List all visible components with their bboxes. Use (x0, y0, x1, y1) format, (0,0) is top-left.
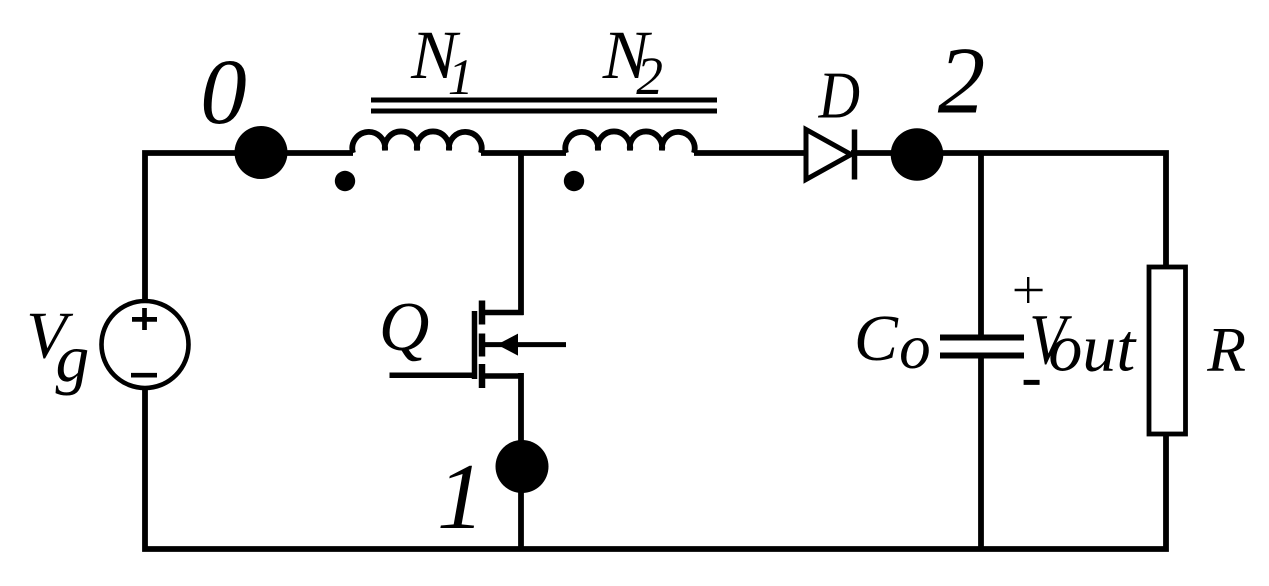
svg-text:o: o (899, 312, 931, 382)
svg-text:g: g (56, 321, 90, 396)
svg-text:1: 1 (437, 445, 484, 549)
svg-text:Q: Q (379, 289, 430, 366)
svg-text:2: 2 (636, 46, 663, 106)
svg-text:C: C (854, 302, 899, 375)
svg-text:out: out (1048, 309, 1137, 385)
svg-text:2: 2 (938, 28, 986, 134)
svg-text:D: D (818, 59, 860, 132)
svg-text:R: R (1206, 314, 1246, 385)
svg-text:0: 0 (200, 41, 247, 144)
svg-text:1: 1 (448, 50, 473, 106)
